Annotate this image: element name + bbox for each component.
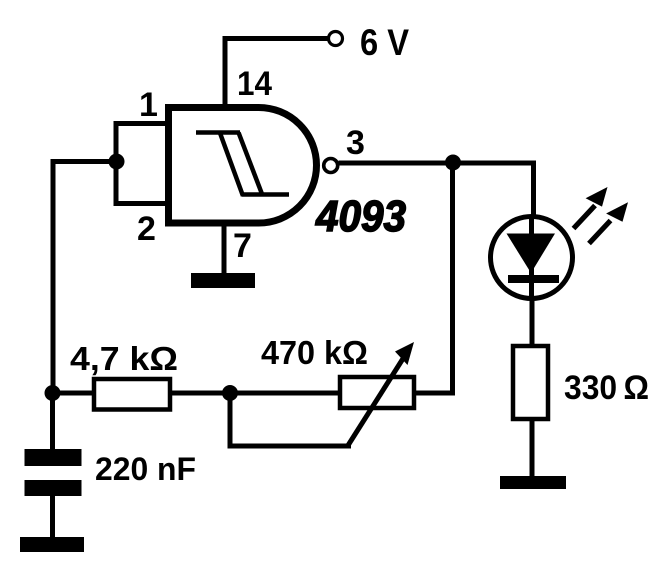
svg-text:470 kΩ: 470 kΩ: [261, 334, 368, 371]
svg-text:6 V: 6 V: [360, 22, 409, 63]
wire pin 3 output to LED branch: [339, 163, 534, 218]
svg-text:7: 7: [233, 227, 252, 265]
pin 2 stub: [116, 201, 165, 206]
wire wiper return from middle junction: [230, 393, 351, 446]
capacitor C1 220 nF: [25, 393, 82, 538]
resistor R2 470 kOhm variable: [340, 377, 414, 408]
wire between 4,7k and junction: [170, 391, 230, 396]
Schmitt trigger hysteresis symbol: [196, 133, 289, 197]
svg-text:14: 14: [237, 65, 272, 103]
wire feedback from input junction to left rail: [53, 162, 116, 394]
inversion bubble pin 3: [324, 159, 338, 173]
svg-text:220 nF: 220 nF: [95, 451, 196, 487]
svg-text:3: 3: [346, 124, 365, 162]
junction dot inputs: [109, 154, 125, 170]
terminal 6 V: [329, 32, 343, 46]
resistor R3 330 ohm: [513, 346, 548, 419]
junction dot output node: [445, 155, 461, 171]
ground below 330: [500, 476, 566, 489]
wiper arrow of 470k: [347, 342, 414, 447]
ground below capacitor: [20, 537, 84, 552]
wire resistor 330 to ground: [530, 419, 535, 478]
junction dot left rail bottom: [45, 385, 61, 401]
ground below gate: [191, 273, 255, 288]
wire supply horizontal to 6V terminal: [223, 36, 329, 41]
wire output node down to 470k right end: [414, 163, 453, 394]
wire input vertical joining pins 1 and 2: [114, 121, 119, 206]
wire junction to 470k: [230, 391, 342, 396]
junction dot middle: [222, 385, 238, 401]
svg-text:4093: 4093: [315, 192, 406, 241]
pin 1 stub: [116, 121, 165, 126]
resistor R1 4,7 kOhm: [94, 379, 170, 410]
wire left rail to 4,7k: [53, 391, 96, 396]
op-amp U1 NAND gate 4093 body: [169, 108, 317, 224]
svg-text:1: 1: [139, 86, 158, 124]
LED D1: [491, 216, 573, 300]
svg-text:4,7 kΩ: 4,7 kΩ: [70, 340, 178, 377]
light emission arrows: [574, 187, 629, 244]
svg-text:330 Ω: 330 Ω: [564, 369, 649, 407]
wire LED cathode to resistor 330: [530, 300, 535, 348]
wire pin 7 to ground: [222, 223, 227, 275]
wire pin 14 vertical: [223, 36, 228, 106]
svg-text:2: 2: [137, 210, 156, 248]
